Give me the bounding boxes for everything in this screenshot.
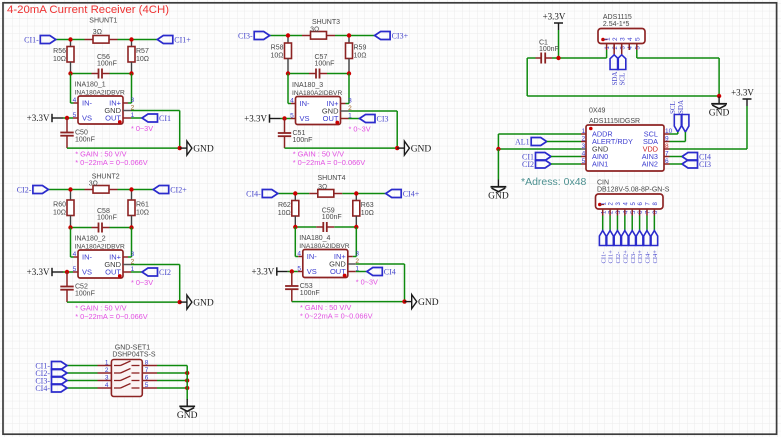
svg-text:CI3+: CI3+ (637, 250, 644, 264)
pin 10 SCL (664, 133, 670, 135)
pin 2 GND (123, 110, 131, 112)
junction bottom left (286, 71, 290, 75)
svg-text:IN-: IN- (300, 99, 311, 108)
svg-text:100nF: 100nF (293, 137, 313, 144)
net flag CI3- (254, 32, 270, 40)
svg-text:OUT: OUT (105, 114, 121, 123)
wire OUT to CI2 (131, 271, 142, 273)
junction top left (68, 37, 72, 41)
svg-text:+3.3V: +3.3V (27, 267, 50, 277)
net flag CI3 (360, 115, 376, 123)
wire OUT to CI1 (131, 117, 142, 119)
svg-text:C50: C50 (75, 130, 88, 137)
shunt resistor SHUNT3 (302, 35, 311, 37)
svg-text:10Ω: 10Ω (354, 53, 367, 60)
capacitor C52 (66, 272, 68, 287)
svg-text:4: 4 (73, 251, 77, 258)
svg-text:10Ω: 10Ω (53, 210, 66, 217)
ground (180, 301, 187, 303)
junction top right (354, 191, 358, 195)
wire +3.3V to VS (281, 118, 291, 120)
svg-text:* 0~3V: * 0~3V (131, 278, 153, 287)
svg-text:C52: C52 (75, 284, 88, 291)
wire SCL (677, 132, 679, 134)
svg-text:INA180A2IDBVR: INA180A2IDBVR (299, 243, 349, 250)
svg-text:R63: R63 (361, 202, 374, 209)
junction gnd (178, 146, 182, 150)
svg-text:INA180A2IDBVR: INA180A2IDBVR (292, 90, 342, 97)
svg-text:10Ω: 10Ω (270, 53, 283, 60)
svg-text:+3.3V: +3.3V (731, 88, 754, 98)
junction switch gnd (185, 371, 189, 375)
pin 2 GND (123, 264, 131, 266)
svg-text:SCL: SCL (619, 73, 627, 86)
net flag CI3+ (375, 32, 391, 40)
svg-text:10Ω: 10Ω (278, 210, 291, 217)
svg-text:3: 3 (582, 143, 586, 150)
ground (186, 399, 188, 406)
pin 2 GND (341, 110, 349, 112)
ground (497, 180, 499, 187)
svg-text:IN-: IN- (82, 253, 93, 262)
svg-text:100nF: 100nF (75, 137, 95, 144)
flag SDA top (682, 115, 689, 133)
svg-text:100nF: 100nF (75, 291, 95, 298)
svg-text:+3.3V: +3.3V (543, 12, 566, 22)
flag SCL header (621, 44, 623, 55)
junction switch gnd (185, 386, 189, 390)
pin 2 GND (348, 263, 356, 265)
svg-text:R59: R59 (354, 45, 367, 52)
svg-text:AIN1: AIN1 (592, 160, 608, 169)
junction bottom right (129, 225, 133, 229)
svg-text:VS: VS (82, 114, 92, 123)
svg-text:1: 1 (604, 37, 611, 41)
svg-text:6: 6 (665, 158, 669, 165)
svg-text:5: 5 (145, 382, 149, 389)
svg-text:GND: GND (193, 145, 214, 155)
op-amp INA180_4 INA180A2IDBVR (303, 250, 348, 278)
pin 5 VS (291, 118, 296, 120)
svg-text:10Ω: 10Ω (136, 56, 149, 63)
svg-text:CI2+: CI2+ (170, 185, 187, 194)
net flag CI4+ (386, 190, 402, 198)
op-amp INA180_1 INA180A2IDBVR (78, 96, 123, 124)
svg-text:2: 2 (105, 367, 109, 374)
svg-text:3: 3 (131, 97, 135, 104)
power +3.3V (51, 114, 53, 122)
wire to CI4+ (356, 193, 385, 195)
svg-text:CI3: CI3 (699, 160, 711, 169)
svg-text:CI2+: CI2+ (622, 250, 629, 264)
wire pin2 to gnd (131, 110, 180, 112)
wire C1 gnd loop (526, 58, 528, 96)
svg-text:CI2-: CI2- (615, 252, 622, 264)
switch pole 3 CI3- (98, 380, 112, 382)
svg-text:* 0~22mA = 0~0.066V: * 0~22mA = 0~0.066V (75, 158, 148, 167)
svg-text:4: 4 (627, 37, 634, 41)
junction top left (293, 191, 297, 195)
resistor R59 (348, 36, 350, 44)
svg-text:1: 1 (105, 360, 109, 367)
svg-text:8: 8 (665, 143, 669, 150)
power +3.3V (51, 268, 53, 276)
svg-text:INA180_3: INA180_3 (292, 82, 323, 89)
svg-text:5: 5 (635, 37, 642, 41)
wire shunt to right junction (335, 35, 349, 37)
net flag CI4 (367, 268, 383, 276)
power +3.3V (743, 98, 752, 100)
svg-text:*Adress: 0x48: *Adress: 0x48 (521, 176, 587, 188)
net flag CI1 (536, 153, 552, 161)
svg-text:4: 4 (105, 382, 109, 389)
svg-text:* 0~22mA = 0~0.066V: * 0~22mA = 0~0.066V (75, 312, 148, 321)
net flag CI2- (52, 369, 68, 377)
junction gnd header (717, 94, 721, 98)
wire +3.3V to VS (63, 117, 73, 119)
svg-text:4-20mA Current Receiver (4CH): 4-20mA Current Receiver (4CH) (7, 4, 169, 16)
svg-text:CI1: CI1 (159, 114, 171, 123)
wire pin5 right (637, 57, 719, 59)
wire +3.3V to VS (63, 271, 73, 273)
junction bottom right (347, 71, 351, 75)
pin 1 OUT (341, 118, 349, 120)
svg-text:10Ω: 10Ω (361, 210, 374, 217)
junction +3.3V (556, 56, 560, 60)
pin 4 AIN0 (581, 156, 586, 158)
svg-text:9: 9 (665, 136, 669, 143)
wire CI4- to shunt (278, 193, 310, 195)
svg-text:DB128V-5.08-8P-GN-S: DB128V-5.08-8P-GN-S (597, 186, 670, 193)
pin 8 VDD (664, 148, 670, 150)
junction top left (286, 33, 290, 37)
svg-text:CI2: CI2 (159, 268, 171, 277)
shunt resistor SHUNT4 (309, 193, 318, 195)
pin 3 IN+ (131, 228, 133, 258)
svg-text:5: 5 (582, 158, 586, 165)
pin 1 OUT (348, 271, 356, 273)
svg-text:7: 7 (145, 367, 149, 374)
svg-text:VS: VS (82, 268, 92, 277)
pin 3 IN+ (131, 74, 133, 104)
junction gnd (402, 299, 406, 303)
junction bottom left (68, 225, 72, 229)
power +3.3V (554, 22, 563, 24)
shunt resistor SHUNT2 (85, 189, 94, 191)
svg-text:CI2: CI2 (522, 160, 534, 169)
svg-text:VS: VS (300, 114, 310, 123)
switch pole 4 CI4- (98, 387, 112, 389)
svg-text:5: 5 (297, 266, 301, 273)
ground (397, 147, 404, 149)
svg-text:GND-SET1: GND-SET1 (115, 344, 151, 351)
svg-text:GND: GND (177, 411, 198, 421)
wire shunt to right junction (118, 189, 132, 191)
svg-text:CI1+: CI1+ (174, 35, 191, 44)
svg-text:OUT: OUT (105, 268, 121, 277)
svg-text:OUT: OUT (330, 267, 346, 276)
svg-text:C53: C53 (300, 283, 313, 290)
svg-text:R62: R62 (278, 202, 291, 209)
pin 7 AIN3 (664, 156, 670, 158)
capacitor C56 (71, 73, 92, 75)
junction bottom left (68, 71, 72, 75)
svg-text:* 0~22mA = 0~0.066V: * 0~22mA = 0~0.066V (293, 158, 366, 167)
resistor R56 (70, 40, 72, 47)
pin 4 IN- (70, 228, 72, 258)
wire C1 to pin1 (552, 57, 607, 59)
junction bottom left (293, 225, 297, 229)
flag SDA header (613, 44, 615, 55)
svg-text:3Ω: 3Ω (310, 26, 319, 33)
junction bottom right (354, 225, 358, 229)
junction VS (65, 116, 69, 120)
net flag CI1- (52, 362, 68, 370)
svg-text:SHUNT3: SHUNT3 (312, 19, 340, 26)
svg-text:100nF: 100nF (97, 61, 117, 68)
pin 9 SDA (664, 141, 670, 143)
net flag CI4- (262, 190, 278, 198)
junction gnd (395, 146, 399, 150)
op-amp INA180_2 INA180A2IDBVR (78, 250, 123, 278)
pin 5 VS (73, 117, 78, 119)
pin 4 IN- (287, 74, 289, 104)
svg-text:CI3: CI3 (377, 114, 389, 123)
svg-text:CI4-: CI4- (645, 252, 652, 264)
flag SCL top (674, 115, 681, 133)
svg-text:+3.3V: +3.3V (27, 113, 50, 123)
switch pole 2 CI2- (98, 372, 112, 374)
ground (180, 147, 187, 149)
svg-text:3: 3 (131, 251, 135, 258)
wire shunt to right junction (118, 39, 132, 41)
svg-text:CI4-: CI4- (246, 189, 261, 198)
svg-text:5: 5 (73, 112, 77, 119)
wire GND pin3 (498, 148, 581, 150)
svg-text:100nF: 100nF (315, 61, 335, 68)
wire CI2- to shunt (48, 189, 84, 191)
svg-text:100nF: 100nF (300, 290, 320, 297)
svg-text:* 0~22mA = 0~0.066V: * 0~22mA = 0~0.066V (300, 312, 373, 321)
wire CI3- to shunt (270, 35, 302, 37)
wire pin2 to gnd (356, 263, 405, 265)
svg-text:7: 7 (665, 151, 669, 158)
switch pin 6 (142, 380, 157, 382)
pin 5 AIN1 (581, 163, 586, 165)
svg-text:OUT: OUT (323, 114, 339, 123)
net flag CI1+ (157, 36, 173, 44)
pin 3 GND (581, 148, 586, 150)
pin 4 IN- (70, 74, 72, 104)
svg-text:GND: GND (709, 109, 730, 119)
junction addr-gnd (496, 147, 500, 151)
junction top right (129, 187, 133, 191)
svg-text:CI2-: CI2- (17, 185, 32, 194)
ground (718, 97, 720, 104)
net flag AL1 (531, 138, 547, 146)
junction VS (290, 269, 294, 273)
svg-text:SHUNT2: SHUNT2 (92, 174, 120, 181)
switch pin 8 (142, 365, 157, 367)
wire to CI1+ (132, 39, 158, 41)
svg-text:3Ω: 3Ω (89, 181, 98, 188)
svg-text:R56: R56 (53, 48, 66, 55)
svg-text:ADS1115: ADS1115 (603, 14, 632, 21)
svg-text:3: 3 (355, 251, 359, 258)
svg-text:GND: GND (488, 192, 509, 202)
svg-text:+3.3V: +3.3V (251, 267, 274, 277)
resistor R62 (294, 194, 296, 201)
svg-text:5: 5 (73, 266, 77, 273)
junction top right (347, 33, 351, 37)
svg-text:CI4+: CI4+ (652, 250, 659, 264)
power +3.3V (269, 114, 271, 122)
resistor R61 (131, 190, 133, 201)
junction VS (65, 270, 69, 274)
svg-text:6: 6 (145, 375, 149, 382)
svg-text:SHUNT1: SHUNT1 (89, 18, 117, 25)
power +3.3V (276, 267, 278, 275)
svg-text:CI3+: CI3+ (392, 31, 409, 40)
pin 3 IN+ (348, 74, 350, 104)
wire switch to gnd (186, 366, 188, 401)
svg-text:IN-: IN- (307, 252, 318, 261)
switch pin 7 (142, 372, 157, 374)
svg-text:10Ω: 10Ω (53, 56, 66, 63)
capacitor C53 (291, 272, 293, 287)
wire pin2 to gnd (349, 110, 398, 112)
op-amp INA180_3 INA180A2IDBVR (296, 97, 341, 125)
svg-text:3: 3 (620, 37, 627, 41)
svg-text:1: 1 (582, 128, 586, 135)
pin 2 ALERT/RDY (581, 141, 586, 143)
svg-text:* 0~3V: * 0~3V (131, 124, 153, 133)
net flag CI2 (536, 160, 552, 168)
net flag CI4 (682, 153, 698, 161)
svg-text:4: 4 (297, 251, 301, 258)
wire gnd rail (67, 147, 180, 149)
wire to CI3+ (349, 35, 375, 37)
net flag CI2+ (153, 186, 169, 194)
net flag CI3- (52, 377, 68, 385)
pin 1 OUT (123, 117, 131, 119)
svg-text:AL1: AL1 (515, 137, 530, 146)
svg-text:CI4+: CI4+ (403, 189, 420, 198)
capacitor C50 (66, 118, 68, 133)
svg-text:CI4-: CI4- (35, 384, 50, 393)
resistor R60 (70, 190, 72, 201)
wire pin5 down (636, 50, 638, 58)
pin 5 VS (298, 271, 303, 273)
pin 3 IN+ (355, 227, 357, 257)
svg-text:SDA: SDA (677, 100, 685, 114)
svg-text:CI3-: CI3- (238, 31, 253, 40)
net flag CI2- (33, 186, 49, 194)
svg-text:AIN2: AIN2 (642, 160, 658, 169)
svg-text:SHUNT4: SHUNT4 (317, 175, 345, 182)
capacitor C51 (284, 119, 286, 134)
net flag CI1- (40, 36, 56, 44)
svg-text:4: 4 (290, 98, 294, 105)
svg-text:R60: R60 (53, 202, 66, 209)
switch pole 1 CI1- (98, 365, 112, 367)
svg-text:IN-: IN- (82, 99, 93, 108)
pin 6 AIN2 (664, 163, 670, 165)
wire OUT to CI4 (356, 271, 367, 273)
wire VDD (746, 106, 748, 149)
svg-text:CI4: CI4 (384, 267, 396, 276)
junction top left (68, 187, 72, 191)
capacitor C57 (288, 73, 309, 75)
svg-text:4: 4 (73, 97, 77, 104)
svg-text:2.54-1*5: 2.54-1*5 (603, 21, 630, 28)
net flag CI3 (682, 160, 698, 168)
svg-text:3: 3 (105, 375, 109, 382)
capacitor C58 (71, 227, 92, 229)
svg-text:DSHP04TS-S: DSHP04TS-S (112, 352, 156, 359)
svg-text:CI1-: CI1- (24, 35, 39, 44)
wire SDA (684, 132, 686, 142)
shunt resistor SHUNT1 (85, 39, 94, 41)
svg-text:2: 2 (612, 37, 619, 41)
svg-text:INA180_4: INA180_4 (299, 235, 330, 242)
svg-text:R57: R57 (136, 48, 149, 55)
wire +3.3V to VS (288, 271, 298, 273)
junction VS (282, 116, 286, 120)
pin 5 VS (73, 271, 78, 273)
net flag CI1 (142, 114, 158, 122)
resistor R57 (131, 40, 133, 47)
wire gnd rail (285, 147, 398, 149)
svg-text:CI3-: CI3- (630, 252, 637, 264)
junction switch gnd (185, 378, 189, 382)
resistor R63 (355, 194, 357, 201)
svg-text:+3.3V: +3.3V (244, 114, 267, 124)
svg-text:3Ω: 3Ω (318, 184, 327, 191)
svg-text:100nF: 100nF (97, 215, 117, 222)
svg-text:0X49: 0X49 (589, 108, 605, 115)
svg-text:GND: GND (193, 299, 214, 309)
svg-text:INA180_1: INA180_1 (75, 82, 106, 89)
svg-text:GND: GND (411, 145, 432, 155)
wire to CI2+ (132, 189, 154, 191)
svg-text:R61: R61 (136, 202, 149, 209)
svg-text:2: 2 (582, 136, 586, 143)
svg-text:R58: R58 (271, 45, 284, 52)
net flag CI4- (52, 384, 68, 392)
wire gnd rail (292, 301, 405, 303)
svg-text:10Ω: 10Ω (136, 210, 149, 217)
wire shunt to right junction (342, 193, 356, 195)
svg-text:VS: VS (307, 267, 317, 276)
svg-text:3Ω: 3Ω (93, 29, 102, 36)
svg-text:4: 4 (582, 151, 586, 158)
wire OUT to CI3 (349, 118, 360, 120)
resistor R58 (287, 36, 289, 44)
svg-text:5: 5 (290, 113, 294, 120)
svg-text:100nF: 100nF (322, 214, 342, 221)
svg-text:8: 8 (145, 360, 149, 367)
svg-text:INA180A2IDBVR: INA180A2IDBVR (75, 244, 125, 251)
wire pin1 down (606, 50, 608, 58)
wire ADDR to GND net (498, 133, 581, 135)
svg-text:GND: GND (418, 298, 439, 308)
net flag CI2 (142, 268, 158, 276)
svg-text:100nF: 100nF (539, 46, 559, 53)
wire gnd rail (67, 301, 180, 303)
junction top right (129, 37, 133, 41)
svg-text:CI1-: CI1- (600, 252, 607, 264)
